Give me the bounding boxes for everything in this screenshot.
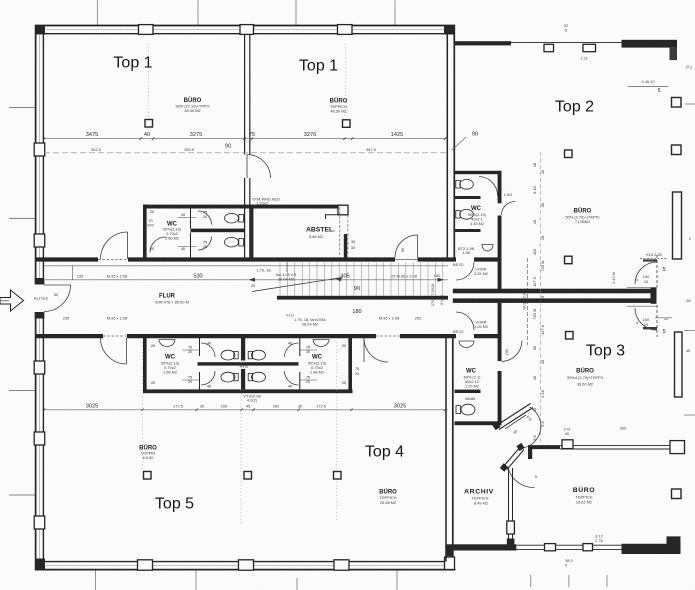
Top2 WC door arc [479, 177, 498, 197]
Top2 SE corner stub [643, 259, 657, 261]
lower WC partition band left [198, 362, 245, 365]
lower WC cluster right wall [348, 338, 352, 393]
entrance door arc [44, 285, 71, 312]
exterior tick left 3 [9, 390, 35, 392]
wall: right wall of upper block inner [446, 34, 448, 262]
upper WC stall door arc 1 [198, 211, 212, 225]
divider wall between Top1 rooms lower [244, 178, 246, 257]
door arc WC lobby from corridor [364, 338, 388, 362]
porch door Top3 leaf [656, 305, 658, 337]
VORR lower east wall [498, 303, 502, 335]
wall: left outer line lower [35, 312, 37, 570]
dimension chain column right of WC stack [540, 152, 542, 444]
dotted grid vertical Top5 c [336, 342, 338, 520]
ABSTEL side dim [347, 215, 349, 257]
dotted grid vertical Top5 a [142, 342, 144, 470]
porch door Top2 arc [635, 262, 657, 284]
Top2 right tall pier [673, 192, 682, 259]
wall: right wall of upper block outer [453, 25, 455, 262]
vertical dim line right of WC [527, 258, 529, 345]
door arc Top1 left [101, 232, 128, 259]
dim arrow right [438, 278, 445, 282]
Top3 column [566, 332, 574, 340]
dim slashes y409 [43, 409, 446, 412]
lower WC central wall [241, 338, 245, 389]
Top3 NE corner stub [643, 327, 657, 329]
upper WC lobby door arc [150, 237, 166, 253]
lower WC partition band right [244, 362, 299, 365]
wall: right wall of lower block inner [445, 334, 447, 562]
wall: corridor north band [35, 257, 502, 261]
exterior axis line top 3 [295, 0, 297, 25]
chevron upper door arc [523, 407, 541, 448]
lower WC stall arcs left [201, 343, 215, 357]
lower WC sink left top [159, 340, 175, 347]
window pier bottom 3 [334, 560, 349, 570]
chevron wall lower diagonal [504, 447, 521, 467]
porch wall face line lower [627, 305, 657, 307]
door arc Top5 [101, 338, 127, 364]
corner block bottom-right [445, 557, 455, 570]
window pier bottom 2 [239, 560, 254, 570]
south window pier 2 [583, 544, 593, 551]
spine wall lower band [453, 298, 651, 303]
Top2 north window pier 1 [544, 44, 554, 51]
door sill corridor north 2 [395, 259, 418, 261]
column Top1 left [145, 120, 153, 128]
ABSTEL west wall [250, 205, 253, 259]
chevron junction squares [492, 422, 500, 430]
window pier left 2 [34, 234, 45, 247]
wall: top outer line [35, 25, 455, 27]
dotted grid vertical Top1 b [345, 44, 347, 118]
corner block bottom-left [35, 559, 45, 571]
Archiv bottom wall band [453, 544, 517, 550]
porch wall face line upper [627, 286, 657, 288]
window pier left 1 [34, 143, 45, 156]
dotted grid vertical Top5 b [240, 342, 242, 525]
VORR door arc lower [456, 312, 474, 330]
exterior tick bottom right 1 [530, 575, 532, 587]
upper WC toilet 2 [225, 237, 244, 247]
right WC partition [455, 390, 481, 393]
SE Buero west wall [508, 468, 510, 545]
corridor dimension line [45, 279, 448, 281]
Top2 north wall band east [622, 40, 678, 48]
window pier bottom 1 [138, 560, 153, 570]
right WC east wall upper [498, 338, 502, 361]
wall: top inner line [44, 33, 448, 35]
right WC door arc to Top3 [502, 341, 523, 362]
wall: corridor south band [35, 334, 502, 338]
south window pier 1 [545, 544, 556, 551]
lower WC toilet R2 [248, 372, 265, 382]
VORR upper east wall [498, 262, 502, 290]
entrance arrow [0, 290, 24, 311]
column Top5 2 [244, 472, 252, 480]
exterior axis line top 2 [197, 0, 199, 25]
upper WC center partition band [191, 229, 245, 233]
exterior axis line bottom 1 [94, 570, 96, 590]
corridor inner face line north [44, 265, 448, 267]
right WC east wall lower [498, 371, 502, 425]
Top2 right pier square 2 [672, 145, 682, 155]
vertical dim x339 upper [339, 207, 341, 256]
Top2 north window pier 2 [583, 44, 596, 51]
ABSTEL east wall lower [344, 234, 347, 258]
WC tick labels lower cluster [151, 342, 346, 389]
chevron lower door arc [508, 468, 535, 488]
Top2 north-east step [670, 48, 678, 61]
door jamb stub [528, 446, 532, 459]
right WC bottom wall [455, 421, 502, 425]
WC tick labels upper cluster [150, 210, 207, 251]
exterior axis line bottom 3 [296, 578, 298, 590]
spine wall end cap [651, 288, 657, 304]
door arc Top1 right [395, 235, 418, 258]
dimension line 2 y152 [44, 152, 448, 154]
upper WC inner partition vertical [190, 209, 192, 229]
exterior tick left 1 [9, 107, 35, 109]
column Top5 1 [144, 472, 152, 480]
Top2 WC east wall upper [498, 171, 502, 204]
entrance jamb top [35, 278, 45, 285]
Top3 south wall east block [670, 441, 685, 454]
lower WC stall arcs right [285, 343, 299, 357]
Top2 column 1 [565, 150, 573, 158]
chevron wall upper diagonal [497, 404, 531, 426]
Archiv step block [446, 544, 453, 556]
bottom-right south wall east band [622, 536, 681, 554]
Top2 WC east wall lower [498, 216, 502, 262]
lower WC toilet L1 [221, 350, 238, 360]
exterior tick left 4 [9, 494, 35, 496]
door leaf Top5 [126, 338, 128, 364]
window glazing line top [46, 29, 446, 31]
dim arrow left [249, 278, 256, 282]
Top2 WC toilet 1 [456, 179, 474, 189]
chevron door leaf diagonal [505, 415, 526, 429]
door leaf divider Top1 [246, 155, 248, 179]
wall: bottom inner line [44, 561, 449, 563]
window pier left 4 [34, 432, 45, 445]
bottom-right building south window lines [516, 544, 622, 546]
upper WC stall door arc 2 [198, 237, 212, 251]
lower WC toilet R1 [248, 350, 265, 360]
exterior axis line bottom 2 [195, 570, 197, 590]
door sill dashed corridor south 1 [103, 335, 127, 337]
exterior axis line bottom 4 [396, 570, 398, 590]
lower WC sink right top [313, 340, 329, 347]
upper WC toilet 1 [225, 213, 244, 223]
window pier left 5 [34, 516, 45, 529]
dim slashes y138 [43, 137, 446, 140]
Top2 north wall thin line [511, 42, 622, 44]
lower WC cluster bottom wall [143, 389, 353, 393]
Top3 bottom right square [672, 489, 682, 499]
porch door Top3 arc [635, 308, 657, 330]
Top2 WC partition 2 [455, 229, 481, 232]
door leaf Top1 left [127, 232, 129, 259]
Top3 south wall band [528, 445, 560, 449]
lower WC partition vertical right [299, 338, 301, 356]
dotted grid vertical Top1 a [148, 44, 150, 117]
exterior tick right 2 [684, 330, 695, 332]
stair hatch in corridor [280, 263, 443, 296]
right WC toilet [456, 404, 475, 415]
Top2 WC partition 1 [455, 196, 481, 199]
corner block top-right [444, 25, 455, 35]
ABSTEL inner line [326, 215, 347, 219]
Top3 south wall window lines [560, 444, 671, 446]
window pier top 2 [240, 25, 254, 35]
door leaf Top1 right [417, 235, 419, 258]
right WC sink top [459, 341, 474, 348]
SE Buero west wall base block [507, 539, 515, 546]
divider wall between Top1 rooms upper [244, 34, 246, 155]
wall: right wall of lower block outer [452, 334, 454, 557]
column Top1 right [343, 120, 351, 128]
exterior tick bottom right 3 [606, 575, 608, 587]
Top3 right tall pier [675, 332, 683, 397]
window pier left 3 [34, 361, 45, 374]
SE Buero west wall pier [507, 521, 515, 534]
porch door Top2 leaf [656, 255, 658, 287]
upper WC left wall [143, 205, 147, 259]
column Top5 3 [334, 472, 342, 480]
exterior tick right 1 [685, 103, 695, 105]
entrance door leaf [44, 284, 71, 286]
wall: bottom outer line [35, 569, 456, 571]
wall: left inner line upper [42, 34, 44, 285]
corner block top-left [35, 25, 45, 35]
Top2 right pier square 1 [672, 98, 682, 108]
window glazing line bottom [46, 565, 446, 567]
dimension line Top1 y138 [44, 138, 448, 140]
window pier top 3 [338, 25, 353, 35]
Top2 WC toilet 2 [456, 209, 474, 219]
exterior tick bottom right 2 [568, 575, 570, 587]
exterior tick right 3 [684, 414, 695, 416]
exterior axis line top 1 [96, 0, 98, 25]
lower WC cluster left wall [143, 338, 147, 393]
Top2 north wall band west [455, 41, 511, 45]
Top2 WC top wall [455, 171, 502, 174]
upper WC cluster top wall band [143, 205, 347, 209]
Top2 WC sink [482, 245, 493, 252]
Top3 south window pier [562, 440, 573, 449]
ABSTEL east pier [338, 205, 348, 215]
Top2 column 2 [565, 256, 573, 264]
exterior axis line top 4 [394, 0, 396, 25]
Top2 WC east door arc [502, 202, 516, 216]
door sill corridor south 2 [376, 335, 400, 337]
window pier top 1 [139, 25, 154, 35]
spine wall upper band [453, 289, 651, 294]
window glazing line left [39, 35, 41, 282]
upper corridor tick pair [72, 266, 74, 280]
wall: left outer line upper [35, 25, 37, 284]
stair direction arrow [252, 278, 342, 292]
exterior tick left 2 [9, 218, 35, 220]
lower WC toilet L2 [221, 372, 238, 382]
entrance jamb bottom [35, 312, 45, 319]
wall: left inner line lower [42, 312, 44, 562]
stair tread strip dark [277, 296, 448, 300]
dimension line lower y409 [44, 409, 448, 411]
door arc divider Top1 [247, 155, 271, 179]
VORR door arc upper [456, 262, 474, 280]
door sill dashed corridor north 1 [98, 259, 128, 261]
lower WC partition vertical left [199, 338, 201, 356]
